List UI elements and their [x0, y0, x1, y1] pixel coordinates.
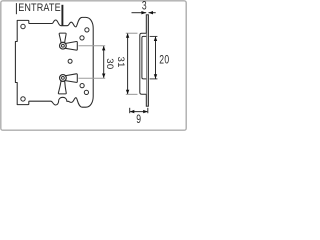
screw hole top-left: [21, 24, 25, 28]
keyhole top: arm: [65, 41, 78, 50]
screw hole top-right lower: [80, 36, 84, 40]
keyhole top: slot: [59, 33, 66, 42]
dim 3 text: [142, 0, 147, 13]
dim 31 text: [115, 57, 126, 68]
dim 30 arrow down: [102, 74, 105, 79]
leader line bottom (grey): [79, 77, 106, 79]
dim 30 text: [104, 58, 115, 69]
dim 20 line: [155, 37, 157, 79]
svg-text:ENTRATE: ENTRATE: [18, 2, 61, 14]
dim 31 arrow up: [126, 33, 129, 38]
dim 20 extension bottom: [150, 78, 158, 80]
dim 9 arrow right: [143, 110, 148, 113]
dim 31 arrow down: [126, 90, 129, 95]
leader arrow line to keyhole: [61, 5, 63, 38]
label ENTRATE: [18, 2, 61, 14]
screw hole middle: [68, 59, 72, 63]
dim 31 extension bottom: [126, 93, 138, 95]
svg-text:20: 20: [159, 55, 169, 68]
keyhole bottom: arm: [65, 74, 78, 83]
svg-text:30: 30: [104, 58, 115, 69]
keyhole bottom: slot: [58, 81, 66, 94]
svg-text:9: 9: [136, 114, 141, 127]
dim 30 line: [103, 46, 105, 77]
svg-text:31: 31: [115, 57, 126, 68]
dim 20 arrow up: [154, 37, 157, 42]
keyhole top: boss circle: [60, 42, 67, 49]
screw hole bottom-right lower: [84, 90, 88, 94]
screw hole bottom-right upper: [80, 84, 84, 88]
side view: lock case inner: [142, 36, 146, 79]
dim 20 text: [159, 55, 169, 68]
dim 9 extension left: [129, 108, 131, 113]
border frame: [1, 1, 186, 130]
label tick: [15, 3, 17, 14]
dim 20 extension top: [150, 35, 158, 37]
dim 9 extension right: [147, 108, 149, 113]
keyhole bottom: pin hole: [62, 77, 65, 80]
plate outline: [15, 17, 93, 107]
screw hole bottom-left: [21, 97, 25, 101]
dim 9 line: [130, 111, 147, 113]
dim 9 text: [136, 114, 141, 127]
dim 9 arrow left: [130, 110, 135, 113]
side view: lock case outer: [140, 33, 147, 94]
dim 3 right arrow: [149, 11, 154, 14]
dim 20 arrow down: [154, 74, 157, 79]
dim 31 extension top: [126, 32, 138, 34]
dim 30 arrow up: [102, 46, 105, 51]
dim 31 line: [127, 34, 129, 94]
dim 3 right line: [149, 12, 156, 14]
leader line top (grey): [79, 45, 106, 47]
dim 3 left line: [132, 12, 147, 14]
dim 3 left arrow: [141, 11, 146, 14]
keyhole top: pin hole: [62, 44, 65, 47]
side view: plate slab: [146, 15, 148, 106]
svg-text:3: 3: [142, 0, 147, 13]
keyhole bottom: boss circle: [60, 75, 67, 82]
screw hole top-right upper: [85, 28, 89, 32]
